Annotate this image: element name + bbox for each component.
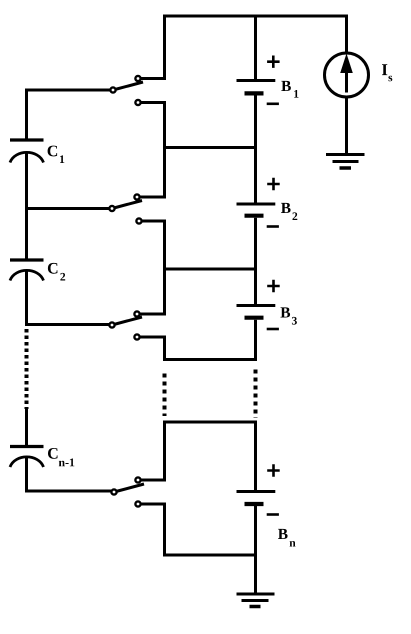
wire top rail to B1 (254, 15, 257, 81)
switch S1 lower contact wire (140, 103, 166, 150)
switch S4 pivot contact (111, 489, 116, 494)
switch S1 lower contact (135, 100, 140, 105)
label B2 (281, 203, 297, 220)
dotted continuation battery column (254, 370, 258, 419)
dotted continuation mid column (163, 374, 167, 417)
wire Cn-1 top lead (25, 409, 28, 447)
label Bn minus (267, 513, 279, 516)
switch S3 pivot wire (27, 323, 110, 326)
wire C1 top lead (25, 89, 28, 141)
switch S1 pivot contact (110, 87, 115, 92)
switch S3 lower contact (134, 334, 139, 339)
switch S4 lower contact (135, 501, 140, 506)
switch S1 upper contact wire (140, 77, 166, 80)
switch S4 lower contact wire (141, 504, 166, 557)
label B3 (281, 307, 297, 324)
wire top rail to mid column (163, 15, 166, 80)
dotted continuation left column (25, 329, 29, 409)
wire junction 4 to S4 upper (163, 421, 166, 482)
switch S2 pivot contact (109, 206, 114, 211)
switch S3 lower contact wire (139, 337, 166, 361)
switch S2 upper contact wire (139, 146, 166, 197)
wire top rail to current source (345, 15, 348, 54)
label B2 minus (267, 225, 279, 228)
wire B2 to junction 2 (254, 218, 257, 306)
switch S4 pivot wire (27, 490, 112, 493)
battery B2 (237, 204, 276, 216)
label B3 minus (267, 328, 279, 331)
wire junction 4 horizontal (above Bn) (165, 421, 256, 424)
switch S2 lower contact (136, 218, 141, 223)
label B2 plus (267, 178, 280, 190)
battery B1 (237, 81, 276, 94)
label Cn-1 (48, 448, 74, 466)
wire Cn-1 bottom lead (25, 458, 28, 493)
switch S4 upper contact wire (141, 421, 166, 481)
switch S3 pivot contact (109, 322, 114, 327)
switch S2 lower contact wire (139, 221, 166, 271)
wire current source to ground (345, 97, 348, 153)
ground (battery string) (237, 594, 275, 607)
wire junction 5 horizontal (below Bn) (165, 554, 256, 557)
ground (current source) (326, 155, 365, 169)
label C1 (48, 146, 65, 163)
wire B1 to junction 1 (254, 96, 257, 205)
wire top rail (163, 15, 348, 18)
battery Bn (237, 492, 276, 505)
switch S3 upper contact wire (139, 268, 166, 315)
wire B3 to junction 3 (254, 320, 257, 361)
wire junction 2 horizontal (165, 268, 256, 271)
label Bn (278, 529, 296, 547)
wire junction 1 horizontal (165, 146, 256, 149)
wire junction 3 horizontal (165, 358, 256, 361)
wire Bn top lead (254, 421, 257, 492)
current source Is (325, 53, 369, 97)
switch S3 blade (112, 317, 142, 325)
label Bn plus (267, 464, 280, 476)
capacitor C1 (10, 140, 44, 163)
switch S1 blade (113, 82, 143, 90)
switch S2 upper contact (134, 194, 139, 199)
switch S3 upper contact (134, 311, 139, 316)
capacitor Cn-1 (10, 447, 44, 468)
wire C2 bottom lead (25, 272, 28, 327)
switch S2 blade (112, 201, 142, 209)
switch S4 upper contact (135, 477, 140, 482)
label B1 plus (267, 56, 280, 68)
switch S4 blade (114, 484, 144, 492)
switch S1 pivot wire from C1 top (27, 89, 111, 92)
label Is (382, 64, 392, 81)
capacitor C2 (10, 260, 44, 281)
label C2 (48, 263, 65, 281)
battery B3 (237, 306, 276, 318)
switch S2 pivot wire (27, 207, 110, 210)
label B1 (281, 81, 298, 98)
wire Bn to ground (254, 506, 257, 594)
label B1 minus (267, 103, 279, 106)
wire C1 bottom to C2 top through S2 tap (25, 153, 28, 261)
label B3 plus (267, 280, 280, 292)
switch S1 upper contact (135, 76, 140, 81)
